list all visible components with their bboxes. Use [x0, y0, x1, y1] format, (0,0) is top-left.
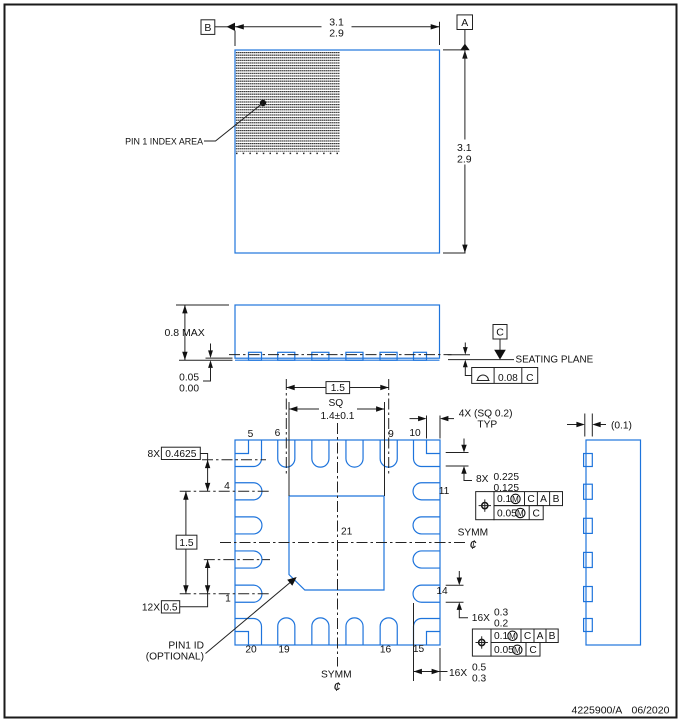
pin 13 pad [413, 551, 440, 568]
svg-text:PIN 1 INDEX AREA: PIN 1 INDEX AREA [125, 137, 203, 147]
svg-text:C: C [496, 327, 504, 339]
svg-text:1: 1 [225, 594, 231, 605]
pin 4 pad [235, 483, 262, 500]
pin 7 pad [312, 440, 329, 467]
top view package outline [235, 50, 440, 253]
pin 15 corner pad outline [414, 619, 441, 646]
datum A box [457, 15, 473, 30]
svg-text:0.1: 0.1 [494, 631, 508, 642]
svg-text:0.225: 0.225 [494, 472, 520, 483]
svg-text:21: 21 [341, 527, 353, 538]
right side view body outline [586, 440, 641, 645]
pin 5 corner pad outline [235, 440, 262, 467]
pin6 column centerline [285, 379, 287, 475]
position tolerance frame 2 [472, 629, 558, 656]
vertical dim top arrow [462, 50, 467, 58]
vertical dim bottom arrow [462, 245, 467, 253]
1.5 top box [326, 382, 350, 394]
svg-text:0.00: 0.00 [179, 384, 199, 395]
svg-text:16X: 16X [449, 668, 467, 679]
flatness symbol [477, 375, 490, 380]
svg-text:C: C [527, 494, 534, 505]
bottom view package outline [235, 440, 440, 645]
datum B arrow (bowtie at left extension) [227, 23, 235, 31]
seating plane datum triangle [494, 350, 506, 360]
vertical symmetry centerline [337, 423, 339, 667]
pin 10 corner pad notch [427, 440, 441, 454]
pin 1 pad [235, 585, 262, 602]
right arrow of 3.1/2.9 [431, 24, 440, 29]
4X SQ 0.2 extension lines [426, 416, 428, 439]
side view pad 1 [249, 352, 262, 360]
pin 19 pad [278, 618, 295, 645]
SQ 1.4 dimension line [289, 408, 319, 410]
pin 2 pad [235, 551, 262, 568]
datum A leader [464, 30, 466, 45]
8X pad width extension lines [446, 452, 469, 454]
pin 15 corner pad notch [427, 632, 441, 646]
svg-text:0.3: 0.3 [472, 673, 486, 684]
thermal pad 21 outline with pin1 chamfer [289, 496, 384, 590]
svg-text:14: 14 [436, 586, 448, 597]
svg-text:0.5: 0.5 [163, 602, 177, 613]
svg-text:0.2: 0.2 [494, 618, 508, 629]
svg-text:0.3: 0.3 [494, 608, 508, 619]
right side view pad 13 [584, 552, 593, 567]
flatness feature control frame [472, 368, 538, 384]
pin 18 pad [312, 618, 329, 645]
datum B leader [215, 26, 228, 28]
svg-text:12X: 12X [142, 602, 160, 613]
datum B box [201, 20, 215, 35]
svg-text:6: 6 [275, 428, 281, 439]
left extension line [234, 31, 236, 47]
svg-text:M: M [509, 632, 516, 641]
svg-text:1.5: 1.5 [179, 538, 193, 549]
seating plane line [448, 359, 514, 361]
pin 3 pad [235, 517, 262, 534]
16X arrows [458, 571, 460, 578]
seating plane centerline [229, 354, 452, 356]
svg-text:(0.1): (0.1) [611, 421, 632, 432]
svg-text:M: M [517, 509, 524, 518]
8X arrows [463, 439, 465, 446]
seating plane upper reference line [448, 354, 470, 356]
svg-text:16: 16 [380, 645, 392, 656]
svg-text:1.4±0.1: 1.4±0.1 [321, 411, 355, 422]
svg-text:0.4625: 0.4625 [165, 449, 196, 460]
svg-text:8X: 8X [476, 474, 489, 485]
svg-text:1.5: 1.5 [331, 383, 345, 394]
index area leader line [204, 103, 263, 141]
side view pad 4 [346, 352, 363, 360]
datum C leader [499, 339, 501, 350]
right side view pad 12 [584, 518, 593, 533]
right side view pad 11 [584, 484, 593, 499]
1.5 vertical dimension line [185, 491, 187, 535]
svg-text:19: 19 [278, 645, 290, 656]
0.5 box and leader [180, 594, 208, 607]
svg-text:PIN1 ID: PIN1 ID [168, 641, 204, 652]
svg-text:(OPTIONAL): (OPTIONAL) [146, 652, 204, 663]
position tolerance frame 1 [476, 492, 563, 520]
position symbol [482, 503, 488, 509]
0.05/0.00 dimension upper extension [206, 357, 233, 359]
pin 20 corner pad outline [235, 619, 262, 646]
16X pad width extension lines [446, 584, 464, 586]
svg-text:15: 15 [413, 644, 425, 655]
corner pad length extension lines [413, 603, 415, 681]
svg-text:C: C [533, 508, 540, 519]
svg-text:8X: 8X [148, 449, 161, 460]
pin 1 index area hatch [236, 51, 340, 152]
thermal pad extension lines [288, 402, 290, 496]
svg-text:C: C [524, 631, 531, 642]
16X leader [459, 609, 468, 617]
side view pad 2 [278, 352, 295, 360]
flatness zone arrows [464, 343, 466, 349]
pin 8 pad [346, 440, 363, 467]
svg-text:TYP: TYP [477, 420, 497, 431]
svg-text:M: M [514, 646, 521, 655]
svg-text:11: 11 [439, 486, 450, 497]
side view body outline [235, 305, 440, 358]
0.4625 box and leader [200, 454, 207, 460]
0.05 lower arrow and leader [208, 360, 213, 368]
svg-text:4X (SQ 0.2): 4X (SQ 0.2) [459, 409, 513, 420]
pin1 row centerline [180, 593, 270, 595]
pin4 row centerline [180, 490, 270, 492]
4X SQ 0.2 arrows [410, 418, 419, 420]
svg-text:SEATING PLANE: SEATING PLANE [516, 355, 594, 366]
datum C box [493, 325, 507, 340]
svg-text:¢: ¢ [469, 537, 476, 552]
right side view pad 14 [584, 587, 593, 602]
(0.1) arrows [567, 424, 577, 426]
side view bottom standoff line [235, 359, 440, 361]
index area leader dot [260, 100, 266, 106]
12X 0.5 dimension line [207, 560, 209, 594]
svg-text:3.1: 3.1 [457, 142, 472, 154]
svg-text:16X: 16X [472, 613, 490, 624]
svg-text:06/2020: 06/2020 [632, 705, 670, 717]
svg-text:¢: ¢ [333, 679, 340, 694]
pin2 row centerline [204, 559, 270, 561]
side view pad 5 [380, 352, 397, 360]
svg-text:SQ: SQ [329, 398, 344, 409]
svg-text:10: 10 [409, 428, 421, 439]
svg-text:A: A [540, 494, 547, 505]
pin 12 pad [413, 517, 440, 534]
svg-text:3.1: 3.1 [329, 16, 344, 28]
pin 11 pad [413, 483, 440, 500]
(0.1) dimension extension lines [584, 414, 586, 437]
hatch bottom dotted boundary [236, 152, 341, 154]
side view pad 6 [414, 352, 427, 360]
svg-text:0.1: 0.1 [497, 494, 511, 505]
1.5 top dimension line [286, 387, 326, 389]
svg-text:A: A [461, 17, 468, 29]
PIN1 ID leader [206, 581, 293, 654]
pin9 column centerline [388, 379, 390, 475]
vertical dimension 3.1/2.9 line [464, 50, 466, 139]
svg-text:0.08: 0.08 [498, 373, 518, 384]
svg-text:0.125: 0.125 [494, 483, 520, 494]
0.8 MAX extension lines [176, 304, 229, 306]
pin 14 pad [413, 585, 440, 602]
pin5 row centerline [202, 459, 266, 461]
8X leader [464, 473, 472, 481]
side view pad 3 [312, 352, 329, 360]
svg-text:0.05: 0.05 [179, 373, 199, 384]
svg-text:2.9: 2.9 [457, 153, 472, 165]
0.4625 dimension line [207, 460, 209, 492]
right side view pad 15 [584, 619, 593, 632]
svg-text:B: B [553, 494, 560, 505]
right side view pad 10 [584, 454, 593, 467]
svg-text:A: A [537, 631, 544, 642]
svg-text:0.05: 0.05 [494, 645, 514, 656]
horizontal symmetry centerline [220, 542, 466, 544]
svg-text:0.8 MAX: 0.8 MAX [165, 327, 205, 339]
svg-text:B: B [204, 22, 211, 34]
horizontal dimension 3.1/2.9 line [235, 26, 322, 28]
position symbol [479, 639, 485, 645]
pin 10 corner pad outline [414, 440, 441, 467]
svg-text:0.05: 0.05 [497, 508, 517, 519]
svg-text:C: C [529, 645, 536, 656]
top extension line (right of package) [443, 49, 466, 51]
svg-text:B: B [549, 631, 556, 642]
svg-text:20: 20 [245, 645, 257, 656]
pin 20 corner pad notch [235, 632, 249, 646]
pin 5 corner pad notch [235, 440, 249, 454]
0.05 upper arrow [210, 344, 212, 352]
pin 6 pad [278, 440, 295, 467]
svg-text:4: 4 [224, 481, 230, 492]
0.8 MAX dimension line [184, 305, 186, 360]
1.5 box [176, 535, 197, 549]
16X 0.5/0.3 dimension [414, 671, 441, 673]
svg-text:2.9: 2.9 [329, 28, 344, 40]
pin 16 pad [380, 618, 397, 645]
svg-text:C: C [526, 373, 533, 384]
svg-text:5: 5 [248, 429, 254, 440]
svg-text:4225900/A: 4225900/A [572, 705, 623, 717]
bottom extension line [443, 252, 466, 254]
datum A triangle [460, 44, 470, 51]
pin 9 pad [380, 440, 397, 467]
svg-text:0.5: 0.5 [472, 663, 486, 674]
right extension line [439, 22, 441, 45]
svg-text:M: M [512, 495, 519, 504]
pin 17 pad [346, 618, 363, 645]
